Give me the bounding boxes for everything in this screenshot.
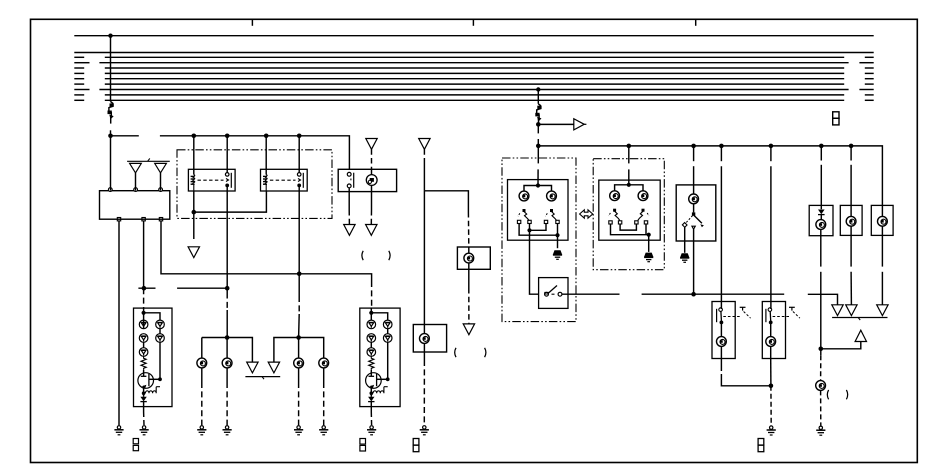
wire: J/B pin4 to ground <box>118 221 120 425</box>
flasher internal wiring <box>519 224 560 249</box>
arrow: to ground page (open triangle) <box>188 247 199 258</box>
node B <box>297 272 302 277</box>
flasher contacts left <box>517 209 531 224</box>
resistor R3 <box>141 356 146 370</box>
turn flasher unit left (dash-dot) <box>502 158 576 322</box>
ground G10 (flasher right internal) <box>644 253 653 262</box>
door pin actuator B <box>789 307 800 318</box>
resistor R5 <box>369 356 374 370</box>
node: R2 coil tap <box>264 134 269 139</box>
wire: LED col joins <box>144 320 160 379</box>
front lamp harness right <box>274 335 324 362</box>
wire: flasher to hazard switch <box>530 230 539 294</box>
connector C2 <box>360 439 366 452</box>
side marker lamp box front <box>457 247 490 269</box>
flasher left inner box <box>508 180 569 241</box>
node: dimmer tap <box>691 144 696 149</box>
fusible link FL1 <box>108 102 114 124</box>
bus wire W11 <box>74 99 873 101</box>
relay R2 <box>261 136 308 191</box>
door switch box B <box>762 302 785 359</box>
wire: x771 down to switch B <box>770 146 772 309</box>
LED D11 <box>367 348 376 357</box>
wire: R1 coil return to R2 coil <box>194 191 267 212</box>
indicator lamp F4 <box>638 191 648 201</box>
bus wire W8 <box>74 83 873 85</box>
LED D9 <box>367 320 376 329</box>
wire: relay feed bus y136 <box>111 136 350 170</box>
diode symbol D1 <box>130 163 142 190</box>
turn flasher unit right (dash-dot) <box>593 159 664 270</box>
node: R1 contact tap <box>225 134 230 139</box>
wire: dashed drop to right LED unit <box>371 281 373 308</box>
flasher right internal wiring <box>611 224 651 252</box>
wire: L1 to ground <box>201 368 203 425</box>
ground G8 <box>420 426 429 435</box>
node: switchB tap <box>769 144 774 149</box>
indicator lamp F1 <box>519 191 529 201</box>
switch A contacts <box>717 308 742 324</box>
wire: x694 into dimmer box <box>693 146 695 194</box>
relay R1 <box>188 136 235 191</box>
bus wire W1 <box>74 34 873 38</box>
resistor R6 (emitter coil) <box>370 387 388 395</box>
wire: LED col joins right <box>371 329 387 380</box>
ground G2 <box>197 426 206 435</box>
lamp L10 <box>816 220 826 236</box>
wire: broken link y288 <box>177 286 229 291</box>
arrow triangle right pair <box>268 362 279 373</box>
flasher right harness split <box>615 185 643 191</box>
wire: x629 into flasher right <box>628 146 630 185</box>
wire: box2 down <box>850 235 852 304</box>
shield bar <box>127 158 170 161</box>
node: flasher2 tap <box>627 144 632 149</box>
wire: dimmer common down <box>693 229 695 294</box>
ground bar under arrows <box>245 377 280 380</box>
arrow triangle below L5 <box>463 324 474 335</box>
node: switchA tap <box>719 144 724 149</box>
LED D13 <box>383 334 392 343</box>
wire: switch B to node E and ground <box>770 359 773 426</box>
diode symbol D2 <box>155 163 167 190</box>
arrow triangle T1 <box>832 305 843 316</box>
ground G6 <box>140 426 149 435</box>
lamp L6 <box>420 334 430 344</box>
LED flasher unit right <box>360 308 400 407</box>
headlamp connector box <box>338 169 396 191</box>
tail lamp box 3 <box>871 205 893 235</box>
wire: LED unit right to ground <box>370 407 372 426</box>
lamp L13 <box>816 381 826 391</box>
indicator lamp F3 <box>610 191 620 201</box>
lamp L5 <box>464 253 474 263</box>
node: R1 coil tap <box>192 134 197 139</box>
bus wire W5 <box>74 67 873 69</box>
wire: x538 into flasher <box>537 146 539 186</box>
lamp L2 <box>222 358 232 368</box>
wire: node B to right LED unit <box>299 274 371 281</box>
feed wire y146 <box>538 146 882 206</box>
arrow: feed out right <box>538 119 586 130</box>
wire: L3 to ground <box>298 368 300 425</box>
connector C3 <box>413 439 419 452</box>
resistor R4 (emitter coil) <box>142 387 160 395</box>
arrow triangle T2 <box>846 305 857 316</box>
flasher contacts right <box>544 209 559 224</box>
flasher right contacts left <box>609 209 622 224</box>
flasher right inner box <box>599 180 660 240</box>
lamp L12 <box>878 216 888 235</box>
wire: stub to arrow 1 <box>808 294 838 305</box>
connector C1 <box>133 439 138 451</box>
ground G13 <box>816 426 825 435</box>
tail lamp box 1 <box>809 146 833 236</box>
lamp L11 <box>846 216 856 235</box>
arrow triangle below connector left <box>344 225 355 236</box>
ground G3 <box>223 426 232 435</box>
LED D10 <box>367 334 376 343</box>
wire: box1 down <box>820 236 822 349</box>
tail lamp box 2 <box>840 146 862 236</box>
wire: R2 contact drop x299 <box>298 191 301 338</box>
diode D8 <box>140 393 146 406</box>
arrow triangle left pair <box>247 362 258 373</box>
node F <box>819 347 824 352</box>
label ( ) side marker <box>455 348 486 357</box>
lamp L9 <box>766 322 776 358</box>
wire: L4 to ground <box>323 368 325 425</box>
LED D3 <box>139 320 148 329</box>
lamp L3 <box>294 358 304 368</box>
wire: L2 to ground <box>226 368 228 425</box>
dimmer switch contacts <box>682 204 704 229</box>
bus wire W9 <box>74 87 873 91</box>
wire: R1 contact drop x227 <box>226 191 228 338</box>
bar under arrows right <box>832 318 887 321</box>
bus wire W4 <box>74 62 873 64</box>
lamp L8 <box>717 322 727 358</box>
transistor Q2 <box>366 370 390 393</box>
node: coil return junction <box>192 210 197 215</box>
wire: J/B pin5 down <box>143 221 145 288</box>
LED D5 <box>139 348 148 357</box>
label ( ) headlamp <box>362 251 390 260</box>
switch B contacts <box>766 308 791 324</box>
node: flasher split <box>536 183 540 187</box>
wire: FL1 to node A <box>110 130 112 136</box>
arrow triangle x424 <box>419 139 430 191</box>
ground G11 <box>680 254 689 262</box>
wire: lamp L6 to ground <box>423 352 425 425</box>
wire: T to x468 lamp <box>424 191 468 247</box>
wire: lamp L13 to ground <box>820 390 822 425</box>
ground G7 <box>367 426 376 435</box>
wire: gap resume into node D <box>537 139 539 146</box>
parking lamp box <box>413 325 446 353</box>
wire: node A to J/B pin1 <box>110 136 112 191</box>
wire: box3 down <box>881 235 883 304</box>
arrow triangle below connector right <box>366 225 377 236</box>
LED D12 <box>383 320 392 329</box>
node: lampbox1 tap <box>819 144 824 149</box>
node C <box>536 122 541 127</box>
fusible link FL2 <box>535 104 541 125</box>
headlamp dimmer switch box <box>676 185 716 241</box>
node E <box>769 384 774 389</box>
wire: x721 down to switch A <box>720 146 722 309</box>
bus wire W2 <box>74 52 873 54</box>
arrow triangle above headlamp connector <box>366 139 377 170</box>
wire: connector box left drop <box>348 188 350 225</box>
arrow triangle up T4 <box>821 330 867 349</box>
junction bar and node <box>138 286 155 291</box>
wire: to LED unit left (dashed connector run) <box>143 288 145 308</box>
ground G4 <box>294 426 303 435</box>
wire: switch A to node E <box>721 359 771 386</box>
connector C4 <box>758 439 764 452</box>
door pin actuator A <box>740 307 751 318</box>
integration relay box (dash-dot) <box>177 150 332 219</box>
lamp L4 <box>319 358 329 368</box>
label ( ) lamp L13 <box>827 390 847 399</box>
circled component G <box>366 169 377 191</box>
wire: node F to lamp <box>820 349 822 381</box>
ground G9 (flasher internal) <box>553 251 562 259</box>
LED flasher unit left <box>134 308 173 407</box>
door switch box A <box>712 302 735 359</box>
lamp L7 <box>689 194 699 204</box>
indicator lamp F2 <box>547 191 557 201</box>
node A junction <box>108 134 113 139</box>
node: R2 contact tap <box>297 134 302 139</box>
wire: lamp L5 down to arrow <box>468 269 470 324</box>
wire: LED unit left to ground <box>143 407 145 426</box>
wire: coil return down <box>193 212 195 239</box>
wire: dimmer to ground <box>684 227 686 253</box>
wire: J/B pin6 to LED feeds <box>161 221 299 274</box>
junction block J/B <box>100 188 170 221</box>
diode D14 <box>368 393 374 406</box>
wire: battery drop x110 <box>110 36 112 102</box>
ground G12 <box>767 426 776 435</box>
bus wire W10 <box>74 94 873 96</box>
flasher harness split <box>524 186 552 192</box>
bus wire W7 <box>74 78 873 80</box>
LED D6 <box>156 320 165 329</box>
node D <box>536 144 541 149</box>
flasher right contacts right <box>635 209 649 224</box>
transistor Q1 <box>138 370 162 393</box>
lamp L1 <box>197 358 207 368</box>
diode D15 <box>818 210 825 220</box>
node: lampbox2 tap <box>849 144 854 149</box>
wire: x424 down to lamp box <box>423 191 425 325</box>
connector C5 top right <box>833 112 839 125</box>
bus wire W3 <box>74 56 873 58</box>
wire: connector box right drop <box>370 192 372 225</box>
wire: bus drop x538 <box>537 90 539 104</box>
node: flasher right split <box>627 183 631 187</box>
front lamp harness left <box>202 335 253 362</box>
wire: node C down <box>537 124 539 133</box>
wire: hazard sw to dimmer node <box>562 292 784 297</box>
ground G5 <box>319 426 328 435</box>
LED D7 <box>156 334 165 343</box>
hazard switch box <box>539 278 568 309</box>
ground G1 <box>114 426 123 435</box>
LED D4 <box>139 334 148 343</box>
arrow triangle T3 <box>877 305 888 316</box>
bus wire W6 <box>74 72 873 74</box>
symbol: double arrow <box>580 210 593 218</box>
